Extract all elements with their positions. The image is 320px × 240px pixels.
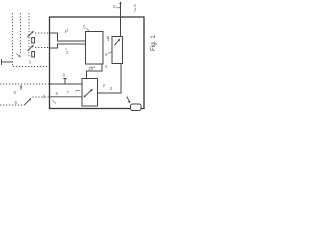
svg-text:5: 5 bbox=[83, 25, 86, 30]
svg-text:2: 2 bbox=[134, 3, 137, 8]
svg-text:Fig. 1: Fig. 1 bbox=[150, 35, 157, 51]
svg-text:2: 2 bbox=[113, 4, 116, 9]
svg-text:3: 3 bbox=[66, 50, 69, 55]
svg-text:6: 6 bbox=[15, 100, 18, 105]
svg-text:2: 2 bbox=[66, 28, 69, 33]
svg-text:4: 4 bbox=[105, 64, 108, 69]
svg-text:2: 2 bbox=[103, 83, 106, 88]
svg-text:5: 5 bbox=[14, 90, 17, 95]
svg-text:8: 8 bbox=[63, 73, 66, 78]
svg-text:6: 6 bbox=[105, 52, 108, 57]
svg-text:7: 7 bbox=[67, 90, 70, 95]
svg-text:3: 3 bbox=[110, 86, 113, 91]
svg-text:6: 6 bbox=[56, 91, 59, 96]
